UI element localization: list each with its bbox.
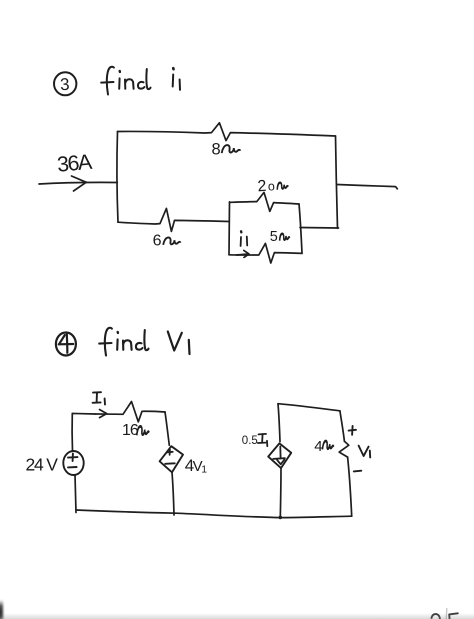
svg-text:6: 6 — [153, 233, 162, 250]
svg-text:36A: 36A — [56, 150, 94, 177]
svg-text:2: 2 — [257, 178, 267, 196]
svg-text:o: o — [267, 179, 275, 193]
svg-text:24 V: 24 V — [26, 455, 59, 475]
svg-text:5: 5 — [270, 229, 278, 245]
svg-text:3: 3 — [60, 75, 70, 94]
svg-text:8: 8 — [212, 141, 221, 159]
svg-text:1: 1 — [201, 464, 207, 476]
svg-text:16: 16 — [122, 422, 139, 439]
svg-text:4: 4 — [314, 438, 322, 455]
svg-text:0.5: 0.5 — [242, 435, 258, 447]
